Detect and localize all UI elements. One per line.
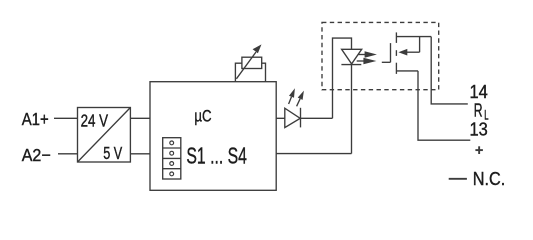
microcontroller uC box bbox=[150, 82, 276, 191]
svg-text:A2−: A2− bbox=[22, 145, 51, 165]
wire opto cathode down bbox=[351, 65, 353, 154]
svg-text:µC: µC bbox=[194, 107, 211, 126]
MOSFET body arrow bbox=[398, 37, 419, 56]
wire supply to uC upper bbox=[130, 117, 150, 119]
MOSFET gate line bbox=[390, 43, 392, 62]
terminal plus sign bbox=[475, 146, 483, 154]
wire uC to LED bbox=[276, 117, 332, 119]
power supply converter 24V/5V box bbox=[78, 108, 131, 163]
svg-text:R: R bbox=[474, 100, 483, 120]
LED D1 indicator diode bbox=[285, 108, 301, 128]
wire drain to terminal 14 bbox=[431, 37, 468, 104]
varistor R (adjustable resistor) body bbox=[242, 57, 262, 68]
wire source to terminal 13 bbox=[418, 71, 470, 140]
optocoupler dashed box bbox=[322, 22, 439, 89]
MOSFET drain lead bbox=[396, 36, 431, 38]
MOSFET source lead bbox=[396, 70, 418, 72]
optocoupler emitter LED bbox=[341, 49, 361, 64]
wire return to uC bbox=[276, 153, 351, 155]
LED light arrows bbox=[289, 88, 304, 106]
svg-text:24 V: 24 V bbox=[81, 111, 109, 131]
svg-text:N.C.: N.C. bbox=[473, 169, 506, 189]
svg-text:S1 ... S4: S1 ... S4 bbox=[186, 143, 247, 169]
N.C. dash bbox=[449, 178, 467, 180]
wire varistor loop bbox=[235, 63, 265, 81]
wire supply to uC lower bbox=[130, 153, 150, 155]
MOSFET channel segment 2 bbox=[395, 50, 397, 56]
wire A2- lead bbox=[58, 153, 78, 155]
MOSFET channel segment 1 bbox=[395, 32, 397, 43]
DIP switch S1..S4 bbox=[163, 138, 181, 179]
opto light arrows bbox=[357, 51, 377, 64]
svg-text:13: 13 bbox=[470, 119, 488, 139]
varistor arrow bbox=[236, 44, 261, 78]
MOSFET channel segment 3 bbox=[395, 63, 397, 74]
transistor Q1 MOSFET gate stub bbox=[382, 61, 391, 63]
wire LED anode rail up bbox=[333, 38, 352, 118]
svg-text:14: 14 bbox=[470, 82, 488, 102]
wire A1+ lead bbox=[54, 117, 78, 119]
svg-text:5 V: 5 V bbox=[103, 143, 122, 163]
svg-text:A1+: A1+ bbox=[22, 109, 49, 129]
